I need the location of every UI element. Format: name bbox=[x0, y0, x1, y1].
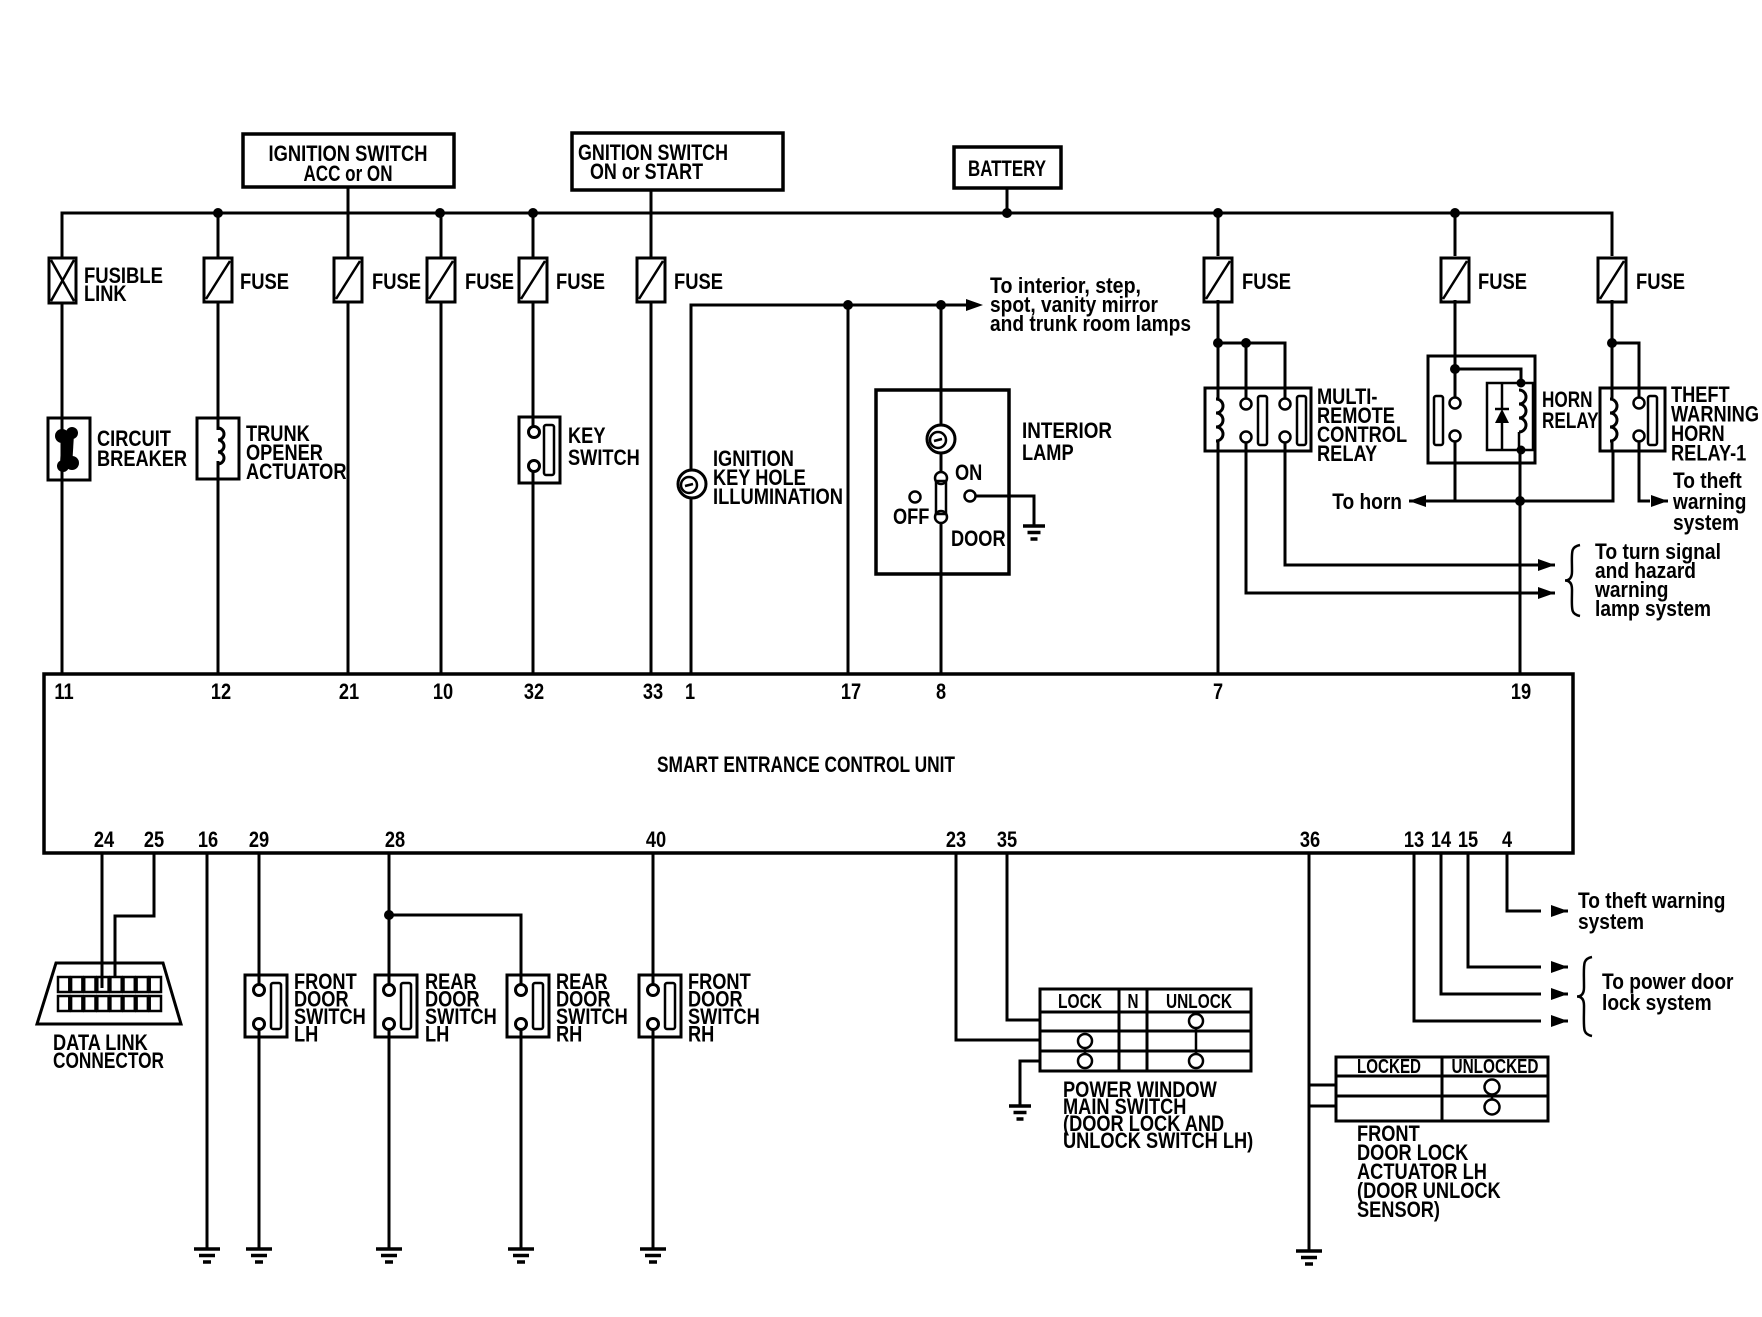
svg-text:RH: RH bbox=[688, 1022, 714, 1047]
switch: rear door switch LH bbox=[375, 969, 497, 1047]
svg-text:UNLOCK: UNLOCK bbox=[1166, 991, 1232, 1013]
wire: fuse F5 to pin 33 bbox=[650, 302, 653, 674]
svg-text:FUSE: FUSE bbox=[1478, 269, 1527, 294]
svg-text:CONNECTOR: CONNECTOR bbox=[53, 1048, 164, 1073]
svg-text:8: 8 bbox=[936, 679, 946, 704]
ground: rear door switch LH bbox=[376, 1247, 402, 1251]
fuse F2 bbox=[334, 258, 421, 302]
svg-text:10: 10 bbox=[433, 679, 453, 704]
fuse F3 bbox=[427, 258, 514, 302]
wire: fuse F4 to key switch bbox=[532, 302, 535, 426]
fusible link bbox=[49, 258, 163, 306]
svg-text:FUSE: FUSE bbox=[240, 269, 289, 294]
wire: F7 drop from bus bbox=[1454, 213, 1457, 256]
svg-text:LH: LH bbox=[425, 1022, 449, 1047]
wire: horn relay contact to To horn arrow bbox=[1454, 442, 1457, 501]
svg-text:lamp system: lamp system bbox=[1595, 596, 1711, 621]
switch: front door switch RH bbox=[639, 969, 760, 1047]
pin numbers: top row bbox=[54, 679, 1531, 704]
wire: bus feeders to fuses bbox=[217, 213, 220, 258]
svg-text:FUSE: FUSE bbox=[465, 269, 514, 294]
wire: multi-remote relay coil to pin 7 bbox=[1217, 451, 1220, 674]
wire: pin 16 to ground bbox=[206, 853, 209, 1249]
wire: F6 to multi-remote relay coil and contacts bbox=[1217, 300, 1220, 388]
svg-text:RELAY-1: RELAY-1 bbox=[1671, 441, 1746, 466]
svg-text:system: system bbox=[1673, 510, 1739, 535]
lamp: interior lamp bulb bbox=[927, 425, 955, 453]
svg-text:ILLUMINATION: ILLUMINATION bbox=[713, 484, 843, 509]
svg-text:ACTUATOR: ACTUATOR bbox=[246, 459, 347, 484]
wire: lamp feed rail with arrow to interior/step/spot lamps bbox=[691, 305, 955, 470]
svg-text:LH: LH bbox=[294, 1022, 318, 1047]
switch: interior lamp ON/OFF/DOOR bbox=[893, 453, 1006, 551]
wire: pin 23 to power window switch bbox=[956, 853, 1040, 1040]
wire: rear door switch LH to ground bbox=[388, 1029, 391, 1249]
wire: fuse F3 to pin 10 bbox=[440, 302, 443, 674]
wire: key switch to pin 32 bbox=[532, 471, 535, 674]
relay: horn relay bbox=[1428, 356, 1599, 463]
fuse F5 bbox=[637, 258, 723, 302]
svg-text:system: system bbox=[1578, 909, 1644, 934]
svg-text:11: 11 bbox=[54, 679, 73, 704]
ground: pin 16 bbox=[194, 1247, 220, 1251]
svg-text:LOCKED: LOCKED bbox=[1357, 1056, 1421, 1078]
wire: pin 15 to power door lock bbox=[1468, 853, 1541, 967]
lamp: ignition key hole illumination bbox=[678, 446, 843, 509]
wire: front door switch LH to ground bbox=[258, 1029, 261, 1249]
fuse F1 bbox=[204, 258, 289, 302]
svg-text:and trunk room lamps: and trunk room lamps bbox=[990, 311, 1191, 336]
ground: front door switch LH bbox=[246, 1247, 272, 1251]
wire: F7 into horn relay bbox=[1454, 300, 1457, 398]
switch: power window main switch table bbox=[1040, 989, 1251, 1071]
svg-text:14: 14 bbox=[1431, 827, 1452, 852]
wire: pin 25 to data link connector bbox=[115, 853, 154, 978]
wire: pin 29 to front door switch LH bbox=[258, 853, 261, 985]
svg-text:UNLOCK SWITCH LH): UNLOCK SWITCH LH) bbox=[1063, 1128, 1253, 1153]
svg-text:25: 25 bbox=[144, 827, 164, 852]
svg-text:BREAKER: BREAKER bbox=[97, 446, 187, 471]
svg-text:1: 1 bbox=[685, 679, 695, 704]
svg-text:28: 28 bbox=[385, 827, 405, 852]
switch: front door switch LH bbox=[245, 969, 366, 1047]
wire: ON/START feed bbox=[650, 190, 653, 257]
svg-text:FUSE: FUSE bbox=[372, 269, 421, 294]
wire: circuit breaker to pin 11 bbox=[61, 418, 64, 674]
svg-text:35: 35 bbox=[997, 827, 1017, 852]
svg-text:LAMP: LAMP bbox=[1022, 440, 1074, 465]
svg-text:FUSE: FUSE bbox=[556, 269, 605, 294]
ground: interior lamp bbox=[1023, 524, 1045, 528]
wire: fuse F2 to pin 21 bbox=[347, 302, 350, 674]
wire: pin 36 to door lock actuator and ground bbox=[1308, 853, 1311, 1251]
wire: power window switch to ground bbox=[1020, 1061, 1040, 1106]
svg-text:32: 32 bbox=[524, 679, 544, 704]
fuse F4 bbox=[519, 258, 605, 302]
wire: F6 drop from bus bbox=[1217, 213, 1220, 256]
wire: pin 4 to theft warning system bbox=[1507, 853, 1541, 911]
wire: pin 35 to power window switch bbox=[1007, 853, 1040, 1020]
svg-text:To horn: To horn bbox=[1332, 489, 1402, 514]
svg-text:24: 24 bbox=[94, 827, 115, 852]
interior lamp box bbox=[876, 390, 1112, 574]
svg-text:ON: ON bbox=[955, 460, 982, 485]
svg-text:SWITCH: SWITCH bbox=[568, 445, 640, 470]
wire: fuse F1 to trunk opener actuator bbox=[217, 302, 220, 430]
svg-text:FUSE: FUSE bbox=[1242, 269, 1291, 294]
wire: front door switch RH to ground bbox=[652, 1029, 655, 1249]
relay: multi-remote control relay bbox=[1205, 384, 1407, 466]
wire: pin 13 to power door lock bbox=[1414, 853, 1541, 1021]
svg-text:OFF: OFF bbox=[893, 504, 929, 529]
svg-text:ON or START: ON or START bbox=[590, 159, 703, 184]
wire: DOOR contact to ground bbox=[976, 496, 1034, 526]
svg-text:N: N bbox=[1128, 991, 1139, 1013]
wire: pin 28 to rear door switch LH and branch bbox=[388, 853, 391, 985]
wire: pin 17 drop bbox=[847, 305, 850, 674]
node: turn signal brace and text bbox=[1565, 545, 1580, 616]
wire: fusible link to circuit breaker bbox=[61, 303, 64, 418]
ground: pin 36 column bbox=[1296, 1249, 1322, 1253]
svg-text:RELAY: RELAY bbox=[1542, 408, 1599, 433]
svg-text:16: 16 bbox=[198, 827, 218, 852]
svg-text:DOOR: DOOR bbox=[951, 526, 1006, 551]
svg-text:FUSE: FUSE bbox=[1636, 269, 1685, 294]
svg-text:36: 36 bbox=[1300, 827, 1320, 852]
connector: data link connector bbox=[37, 963, 181, 1073]
sensor: front door lock actuator table bbox=[1336, 1056, 1548, 1121]
node: IGNITION SWITCH ACC or ON bbox=[243, 134, 454, 187]
svg-text:23: 23 bbox=[946, 827, 966, 852]
key switch bbox=[519, 417, 640, 483]
svg-text:FUSE: FUSE bbox=[674, 269, 723, 294]
svg-text:ACC or ON: ACC or ON bbox=[304, 161, 393, 186]
node: power door lock brace and text bbox=[1577, 957, 1592, 1036]
svg-text:RH: RH bbox=[556, 1022, 582, 1047]
fuse F6 bbox=[1204, 258, 1291, 302]
fuse F7 bbox=[1441, 258, 1527, 302]
svg-text:19: 19 bbox=[1511, 679, 1531, 704]
svg-text:13: 13 bbox=[1404, 827, 1424, 852]
svg-text:12: 12 bbox=[211, 679, 231, 704]
wire: battery drop bbox=[1006, 188, 1009, 213]
wire: keyhole lamp to pin 1 bbox=[690, 498, 693, 674]
svg-text:LINK: LINK bbox=[84, 281, 127, 306]
ground: rear door switch RH bbox=[508, 1247, 534, 1251]
wire: pin 40 to front door switch RH bbox=[652, 853, 655, 985]
svg-text:21: 21 bbox=[339, 679, 359, 704]
svg-text:4: 4 bbox=[1502, 827, 1513, 852]
svg-text:17: 17 bbox=[841, 679, 861, 704]
wire: battery supply bus bbox=[62, 213, 1612, 258]
wire: pin 14 to power door lock bbox=[1441, 853, 1541, 994]
wire: horn relay coil to pin 19 bbox=[1519, 450, 1522, 674]
svg-text:7: 7 bbox=[1213, 679, 1223, 704]
switch: rear door switch RH bbox=[507, 969, 628, 1047]
wire: pin 24 to data link connector bbox=[101, 853, 104, 988]
fuse F8 bbox=[1598, 258, 1685, 302]
wire: interior lamp switch to pin 8 bbox=[940, 523, 943, 674]
wire: ACC feed bbox=[347, 187, 350, 259]
junction dots on bus bbox=[213, 208, 223, 218]
ground: power window switch bbox=[1009, 1104, 1031, 1108]
trunk opener actuator bbox=[197, 418, 347, 484]
svg-text:BATTERY: BATTERY bbox=[968, 156, 1046, 181]
wire: relay contact to turn signal (upper) bbox=[1285, 443, 1541, 565]
relay: theft warning horn relay-1 bbox=[1600, 382, 1759, 466]
svg-text:29: 29 bbox=[249, 827, 269, 852]
circuit breaker CB bbox=[48, 418, 187, 480]
wire: theft relay contact to theft warning system bbox=[1639, 442, 1650, 501]
node: BATTERY bbox=[954, 147, 1061, 188]
pin numbers: bottom row bbox=[94, 827, 1513, 852]
wire: relay contact to turn signal (lower) bbox=[1246, 443, 1541, 593]
svg-text:RELAY: RELAY bbox=[1317, 441, 1377, 466]
wire: to-horn rail bbox=[1425, 451, 1613, 501]
svg-text:UNLOCKED: UNLOCKED bbox=[1452, 1056, 1539, 1078]
wire: rear door switch RH to ground bbox=[520, 1029, 523, 1249]
svg-text:lock system: lock system bbox=[1602, 990, 1712, 1015]
wire: trunk opener actuator to pin 12 bbox=[217, 461, 220, 674]
svg-text:SMART ENTRANCE CONTROL UNIT: SMART ENTRANCE CONTROL UNIT bbox=[657, 752, 955, 777]
wire: feed into interior lamp bbox=[940, 305, 943, 426]
ground: front door switch RH bbox=[640, 1247, 666, 1251]
svg-text:33: 33 bbox=[643, 679, 663, 704]
svg-text:LOCK: LOCK bbox=[1058, 991, 1102, 1013]
unit: SMART ENTRANCE CONTROL UNIT box bbox=[44, 674, 1573, 853]
wire: F8 into theft warning horn relay bbox=[1611, 300, 1614, 388]
svg-text:15: 15 bbox=[1458, 827, 1478, 852]
svg-text:SENSOR): SENSOR) bbox=[1357, 1197, 1440, 1222]
svg-text:40: 40 bbox=[646, 827, 666, 852]
node: IGNITION SWITCH ON or START bbox=[572, 133, 783, 190]
